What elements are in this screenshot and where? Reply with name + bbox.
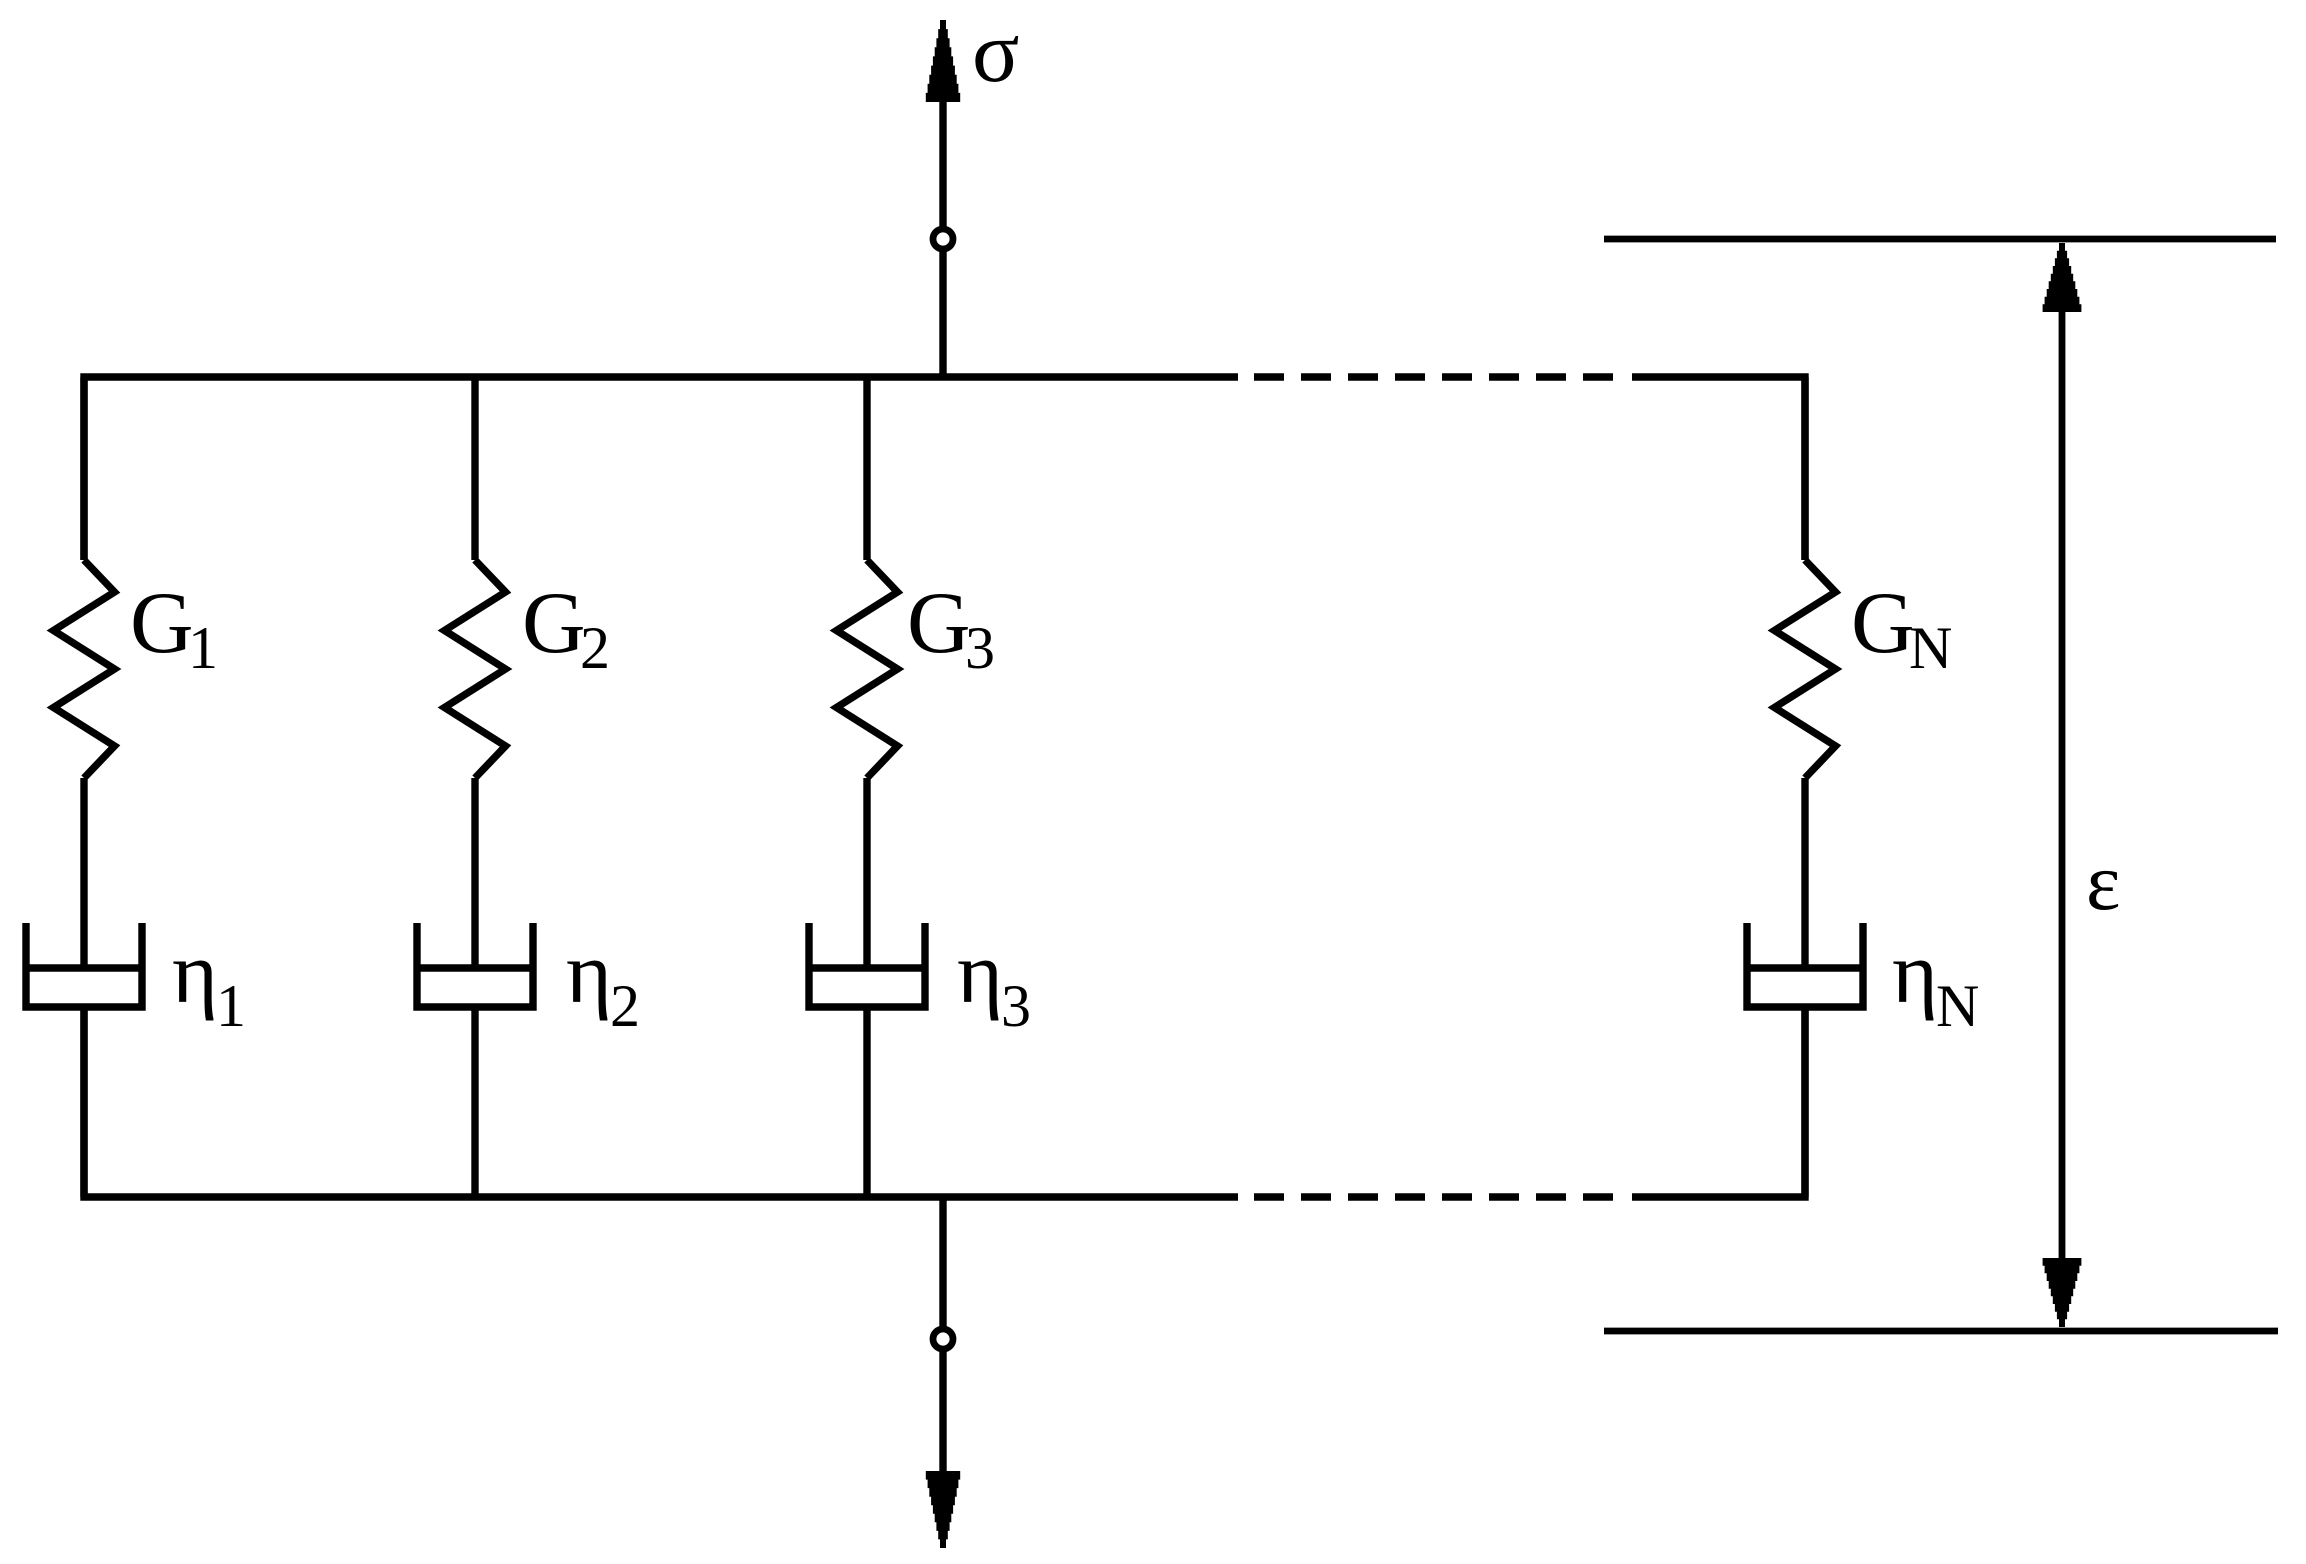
wire: top bus to spring G2 xyxy=(471,377,478,560)
svg-text:ε: ε xyxy=(2086,836,2120,927)
wire: top bus to spring GN xyxy=(1801,377,1808,560)
svg-text:G: G xyxy=(130,575,194,672)
bottom bus wire (solid right part) xyxy=(1632,1007,1805,1197)
svg-text:N: N xyxy=(1909,615,1952,681)
top bus wire (solid right part) xyxy=(1632,377,1805,560)
strain dimension: lower arrowhead xyxy=(2041,1258,2084,1327)
dashpot eta1 piston plate xyxy=(26,964,142,971)
dashpot eta3 piston plate xyxy=(809,964,925,971)
svg-text:G: G xyxy=(522,575,586,672)
wire: dashpot eta2 to bottom bus xyxy=(471,1007,478,1197)
dashpot etaN cylinder cup xyxy=(1747,923,1863,1007)
svg-text:σ: σ xyxy=(972,4,1019,101)
top terminal node circle xyxy=(933,229,953,249)
spring G2 xyxy=(445,560,506,778)
svg-text:η: η xyxy=(172,925,218,1022)
bottom bus wire (dashed middle) xyxy=(1254,1193,1629,1200)
dashpot eta3 cylinder cup xyxy=(809,923,925,1007)
bottom terminal node circle xyxy=(933,1329,953,1349)
svg-text:3: 3 xyxy=(1001,973,1031,1039)
wire: dashpot eta1 to bottom bus xyxy=(80,1007,87,1197)
top stress arrow (sigma) xyxy=(924,20,962,102)
svg-text:2: 2 xyxy=(580,615,610,681)
svg-text:G: G xyxy=(907,575,971,672)
strain dimension: upper arrowhead xyxy=(2041,243,2084,312)
strain dimension: top reference line xyxy=(1604,236,2276,243)
bottom bus wire (solid left part) xyxy=(84,1007,1238,1197)
wire: spring G1 to dashpot piston xyxy=(80,778,87,968)
dashpot eta1 cylinder cup xyxy=(26,923,142,1007)
svg-text:1: 1 xyxy=(188,615,218,681)
wire: dashpot etaN to bottom bus xyxy=(1801,1007,1808,1197)
dashpot eta2 piston plate xyxy=(417,964,533,971)
svg-text:η: η xyxy=(1892,925,1938,1022)
dashpot eta2 cylinder cup xyxy=(417,923,533,1007)
strain dimension: bottom reference line xyxy=(1604,1328,2278,1335)
spring G1 xyxy=(54,560,115,778)
wire: spring G2 to dashpot piston xyxy=(471,778,478,968)
wire: spring GN to dashpot piston xyxy=(1801,778,1808,968)
svg-text:N: N xyxy=(1936,973,1979,1039)
svg-text:η: η xyxy=(566,925,612,1022)
wire: top bus to spring G3 xyxy=(863,377,870,560)
spring G3 xyxy=(837,560,898,778)
top bus wire (dashed middle) xyxy=(1254,373,1629,380)
strain dimension: vertical double arrow line xyxy=(2059,305,2066,1268)
wire: spring G3 to dashpot piston xyxy=(863,778,870,968)
svg-text:η: η xyxy=(957,925,1003,1022)
top bus wire (solid left part) xyxy=(84,377,1238,560)
svg-text:2: 2 xyxy=(610,973,640,1039)
svg-text:1: 1 xyxy=(216,973,246,1039)
bottom stress arrow (sigma) xyxy=(939,1197,946,1327)
dashpot etaN piston plate xyxy=(1747,964,1863,971)
wire: top bus to spring G1 xyxy=(80,377,87,560)
svg-text:G: G xyxy=(1851,575,1915,672)
wire: dashpot eta3 to bottom bus xyxy=(863,1007,870,1197)
spring GN xyxy=(1775,560,1836,778)
svg-text:3: 3 xyxy=(965,615,995,681)
